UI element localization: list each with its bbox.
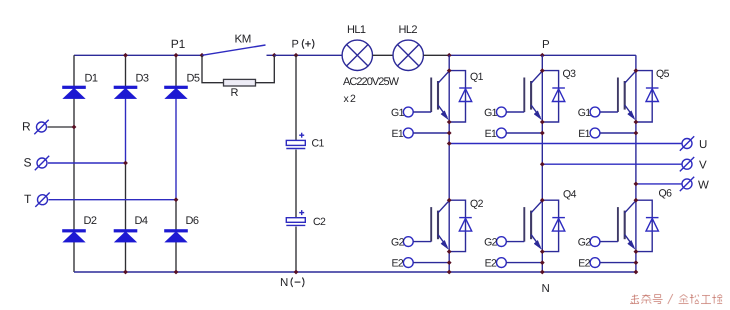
wire (phase U output): [449, 143, 681, 145]
diode D4: [114, 230, 137, 243]
pin label G1: [578, 107, 592, 119]
label Q5: [656, 68, 670, 80]
label V: [699, 160, 707, 172]
gate terminal G1 of Q1: [403, 107, 431, 117]
label P1: [171, 37, 186, 51]
wire (rectifier leg 2 mid): [125, 99, 127, 163]
node (emitter of Q6): [633, 249, 638, 254]
gate terminal G1 of Q5: [590, 107, 618, 117]
terminal V: [680, 157, 694, 171]
transistor Q2: [431, 201, 449, 250]
pin label E1: [392, 128, 404, 140]
node (emitter of Q2): [447, 249, 452, 254]
diode (freewheel, Q3): [552, 88, 565, 102]
node (collector of Q5): [633, 68, 638, 73]
node (T tap): [174, 197, 179, 202]
diode D1: [63, 86, 86, 99]
label R (phase input): [22, 120, 31, 134]
svg-text:T: T: [24, 192, 32, 206]
label Q4: [563, 189, 577, 201]
wire (rectifier leg 2 lower): [125, 163, 127, 272]
node P1: [174, 53, 179, 58]
node (W tap): [633, 181, 638, 186]
emitter terminal E2 of Q2: [403, 258, 449, 268]
wire (P+ to C1): [295, 55, 297, 140]
node (KM right contact): [272, 53, 277, 58]
transistor Q3: [524, 71, 542, 120]
svg-text:E1: E1: [392, 128, 404, 140]
junction (leg2 / N rail): [123, 270, 128, 275]
wire (leg U vertical): [448, 55, 450, 272]
wire (C2 to N rail): [295, 227, 297, 273]
label C2: [313, 216, 326, 228]
node (collector of Q6): [633, 198, 638, 203]
wire (collector to freewheel diode): [542, 200, 558, 251]
diode D6: [165, 230, 188, 243]
emitter terminal E1 of Q5: [590, 128, 636, 138]
label R (resistor value): [231, 87, 239, 99]
junction (E2 lead): [540, 260, 545, 265]
svg-text:HL1: HL1: [347, 24, 366, 36]
node P: [540, 53, 545, 58]
emitter terminal E1 of Q3: [497, 128, 543, 138]
pin label E2: [578, 257, 590, 269]
node (KM left contact): [200, 53, 205, 58]
svg-text:G1: G1: [484, 107, 498, 119]
label S (phase input): [24, 156, 32, 170]
wire (HL1 to HL2): [373, 54, 394, 56]
svg-text:G2: G2: [391, 237, 405, 249]
wire (top rail, rectifier output to KM): [74, 54, 202, 56]
svg-text:Q3: Q3: [563, 68, 577, 80]
label C1: [312, 138, 325, 150]
gate terminal G1 of Q3: [497, 107, 525, 117]
junction (P rail / leg U): [447, 53, 452, 58]
label D1: [85, 73, 98, 85]
watermark text (toutiao): [630, 294, 722, 304]
emitter terminal E2 of Q6: [590, 258, 636, 268]
pin label G1: [391, 107, 405, 119]
wire (HL2 to inverter P rail): [423, 54, 449, 56]
pin label E1: [578, 128, 590, 140]
svg-text:D6: D6: [186, 215, 199, 227]
diode (freewheel, Q4): [552, 218, 565, 232]
svg-text:HL2: HL2: [399, 24, 418, 36]
wire (rectifier leg 2 upper): [125, 55, 127, 99]
svg-text:G2: G2: [578, 237, 592, 249]
capacitor C1: [286, 133, 305, 149]
svg-text:G1: G1: [391, 107, 405, 119]
transistor Q5: [618, 71, 636, 120]
label D4: [135, 215, 148, 227]
wire (R to leg 1): [48, 126, 75, 128]
node (collector of Q4): [540, 198, 545, 203]
wire (bypass loop left): [202, 55, 224, 82]
terminal W: [680, 177, 694, 191]
emitter terminal E1 of Q1: [403, 128, 449, 138]
svg-text:G1: G1: [578, 107, 592, 119]
wire (KM fixed contact): [267, 54, 275, 56]
svg-text:S: S: [24, 156, 32, 170]
lamp HL1: [342, 40, 372, 70]
diode D5: [165, 86, 188, 99]
junction (E2 lead): [633, 260, 638, 265]
junction (leg2/top rail): [123, 53, 128, 58]
node (collector of Q3): [540, 68, 545, 73]
junction (E2 lead): [447, 260, 452, 265]
svg-text:D3: D3: [136, 73, 149, 85]
wire (inverter P rail): [449, 54, 636, 56]
wire (KM to HL1): [274, 54, 342, 56]
label Q1: [470, 71, 484, 83]
wire (T to leg 3): [49, 199, 177, 201]
resistor R (pre-charge): [224, 79, 256, 86]
label Q6: [659, 188, 673, 200]
junction (E1 lead): [447, 131, 452, 136]
diode (freewheel, Q1): [459, 88, 472, 102]
label N: [542, 283, 550, 295]
svg-text:D4: D4: [135, 215, 148, 227]
capacitor C2: [286, 210, 305, 225]
svg-text:E2: E2: [485, 257, 497, 269]
wire (leg V vertical): [541, 55, 543, 272]
pin label G2: [578, 237, 592, 249]
svg-text:Q5: Q5: [656, 68, 670, 80]
svg-text:E2: E2: [392, 257, 404, 269]
svg-text:N: N: [280, 277, 288, 289]
svg-text:E1: E1: [578, 128, 590, 140]
wire (C1 to C2): [295, 150, 297, 218]
pin label G2: [391, 237, 405, 249]
diode D3: [114, 86, 137, 99]
transistor Q1: [431, 71, 449, 120]
svg-text:Q6: Q6: [659, 188, 673, 200]
gate terminal G2 of Q6: [590, 237, 618, 247]
label U: [699, 139, 707, 151]
label (-): [291, 278, 304, 288]
pin label E1: [485, 128, 497, 140]
wire (collector to freewheel diode): [636, 200, 652, 251]
svg-text:D2: D2: [84, 215, 97, 227]
wire (phase W output): [636, 183, 682, 185]
label D2: [84, 215, 97, 227]
label D3: [136, 73, 149, 85]
label HL2: [399, 24, 418, 36]
switch KM (contactor blade): [202, 45, 266, 55]
svg-text:V: V: [699, 160, 707, 172]
label Q3: [563, 68, 577, 80]
node (collector of Q2): [447, 198, 452, 203]
wire (collector to freewheel diode): [636, 71, 652, 122]
diode (freewheel, Q6): [646, 218, 659, 232]
svg-text:C2: C2: [313, 216, 326, 228]
label P: [542, 39, 550, 51]
wire (collector to freewheel diode): [449, 71, 465, 122]
node (S tap): [123, 161, 128, 166]
svg-text:R: R: [231, 87, 239, 99]
svg-text:W: W: [698, 179, 709, 191]
node (U tap): [447, 141, 452, 146]
terminal T: [35, 193, 49, 207]
label D5: [187, 73, 200, 85]
svg-text:KM: KM: [235, 34, 251, 46]
wire (rectifier leg 1): [73, 55, 75, 272]
transistor Q4: [524, 201, 542, 250]
svg-text:N: N: [542, 283, 550, 295]
node (emitter of Q4): [540, 249, 545, 254]
wire (phase V output): [542, 163, 681, 165]
pin label E2: [392, 257, 404, 269]
node (R tap): [72, 125, 77, 130]
pin label E2: [485, 257, 497, 269]
junction (E1 lead): [540, 131, 545, 136]
svg-text:U: U: [699, 139, 707, 151]
diode D2: [63, 230, 86, 243]
terminal U: [680, 136, 694, 150]
label P (+): [292, 39, 299, 51]
svg-text:C1: C1: [312, 138, 325, 150]
svg-text:Q2: Q2: [470, 198, 484, 210]
svg-text:P: P: [542, 39, 550, 51]
gate terminal G2 of Q2: [403, 237, 431, 247]
wire (bottom N rail): [74, 271, 636, 273]
wire (rectifier leg 3 mid): [175, 99, 177, 200]
svg-text:P: P: [292, 39, 299, 51]
svg-text:Q1: Q1: [470, 71, 484, 83]
label D6: [186, 215, 199, 227]
junction (leg W / N rail): [633, 270, 638, 275]
wire (S to leg 2): [48, 162, 126, 164]
wire (collector to freewheel diode): [449, 200, 465, 251]
label Q2: [470, 198, 484, 210]
emitter terminal E2 of Q4: [497, 258, 543, 268]
svg-text:E2: E2: [578, 257, 590, 269]
junction (cap branch/N rail): [294, 270, 299, 275]
diode (freewheel, Q5): [646, 88, 659, 102]
value label AC220V25W: [343, 76, 400, 88]
node (V tap): [540, 162, 545, 167]
svg-text:D1: D1: [85, 73, 98, 85]
svg-text:R: R: [22, 120, 31, 134]
node (collector of Q1): [447, 68, 452, 73]
wire (bypass loop right): [256, 55, 275, 82]
label W: [698, 179, 709, 191]
svg-text:AC220V25W: AC220V25W: [343, 76, 400, 88]
svg-text:D5: D5: [187, 73, 200, 85]
junction (leg3 / N rail): [174, 270, 179, 275]
label KM: [235, 34, 251, 46]
junction (leg U / N rail): [447, 270, 452, 275]
junction (E1 lead): [633, 131, 638, 136]
terminal R: [34, 120, 48, 134]
svg-text:P1: P1: [171, 37, 186, 51]
node (emitter of Q1): [447, 120, 452, 125]
pin label G1: [484, 107, 498, 119]
node N: [540, 270, 545, 275]
value label x2: [344, 93, 358, 105]
wire (collector to freewheel diode): [542, 71, 558, 122]
lamp HL2: [393, 40, 423, 70]
diode (freewheel, Q2): [459, 218, 472, 232]
node (emitter of Q5): [633, 120, 638, 125]
svg-text:Q4: Q4: [563, 189, 577, 201]
wire (leg W vertical): [635, 55, 637, 272]
wire (rectifier leg 3 lower): [175, 200, 177, 272]
gate terminal G2 of Q4: [497, 237, 525, 247]
label N (-): [280, 277, 288, 289]
label T (phase input): [24, 192, 32, 206]
terminal S: [35, 156, 49, 170]
svg-text:G2: G2: [484, 237, 498, 249]
label (+): [302, 39, 314, 49]
node (emitter of Q3): [540, 120, 545, 125]
svg-text:E1: E1: [485, 128, 497, 140]
label HL1: [347, 24, 366, 36]
node P(+): [294, 53, 299, 58]
wire (rectifier leg 3 upper): [175, 55, 177, 99]
pin label G2: [484, 237, 498, 249]
transistor Q6: [618, 201, 636, 250]
svg-text:x2: x2: [344, 93, 358, 105]
